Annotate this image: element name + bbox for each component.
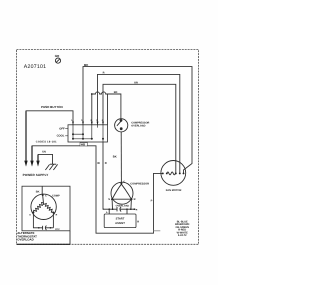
svg-text:COOL: COOL (57, 135, 65, 138)
chassis ground (45, 164, 57, 170)
svg-text:HB: HB (81, 143, 85, 147)
wire bus2 to fan motor (98, 74, 180, 173)
wire overload to compressor C terminal (120, 132, 122, 183)
wire GN ground lead (38, 154, 53, 164)
svg-text:5-24-72: 5-24-72 (178, 234, 187, 237)
svg-text:OVERLOAD: OVERLOAD (131, 125, 145, 128)
wire bus4 switch to compressor overload with crossover hops (92, 92, 121, 125)
alternate detail enclosure box (22, 186, 70, 231)
wire switch to compressor S (103, 142, 104, 209)
label ALTERNATE THERMOSTAT OVERLOAD (17, 231, 37, 242)
svg-text:W: W (97, 162, 100, 165)
start assist box (104, 214, 136, 228)
fan motor M2 (161, 161, 186, 186)
switch internal contacts (73, 125, 103, 142)
switch terminal labels (72, 119, 104, 122)
svg-text:PUSH BUTTON: PUSH BUTTON (41, 105, 63, 109)
svg-text:R: R (103, 71, 105, 74)
svg-text:OR: OR (134, 82, 138, 85)
svg-text:OVERLOAD: OVERLOAD (17, 238, 33, 242)
compressor overload OL1 (115, 119, 128, 132)
switch terminal plug marks (72, 122, 104, 125)
switch box S1 (68, 125, 108, 142)
svg-text:P: P (151, 199, 153, 202)
svg-text:PCC: PCC (55, 228, 60, 231)
terminal C (120, 183, 122, 185)
wire S to capacitor row (111, 199, 113, 209)
svg-text:A: A (106, 211, 108, 214)
alt wire stub BK (41, 186, 43, 194)
svg-text:R: R (137, 221, 139, 224)
pointer wires OFF/COOL (65, 127, 68, 129)
wire bottom stub (154, 230, 161, 232)
svg-text:COMP: COMP (52, 195, 60, 198)
svg-text:START: START (116, 218, 125, 221)
fan terminal dots (162, 172, 185, 174)
run capacitor C1 (103, 207, 136, 212)
svg-text:BK: BK (36, 191, 40, 194)
svg-text:R: R (134, 198, 136, 201)
alt capacitor dots (38, 227, 40, 229)
wire box edge to bottom border (69, 231, 71, 245)
terminal S (111, 198, 113, 200)
alt capacitor wires (32, 213, 34, 228)
compressor winding triangle (112, 184, 131, 199)
border frame (17, 50, 199, 245)
wire bus3 to fan motor (103, 84, 176, 173)
wire power L1 to switch (26, 111, 73, 161)
ground screw GR (55, 58, 60, 63)
svg-text:R: R (56, 214, 58, 217)
svg-text:POWER SUPPLY: POWER SUPPLY (23, 173, 50, 177)
wire R to capacitor row (130, 199, 133, 209)
svg-text:R: R (105, 162, 107, 165)
alternate compressor detail (31, 194, 56, 219)
fan motor winding coil (167, 172, 176, 175)
junction dot bus4 (91, 93, 93, 95)
capacitor junction dots (108, 208, 135, 210)
connector HB at switch bottom (80, 143, 87, 146)
terminal R (130, 198, 132, 200)
alt winding arms (34, 195, 54, 212)
power supply arrows (24, 161, 39, 167)
svg-text:ASSIST: ASSIST (115, 222, 125, 225)
svg-text:GR: GR (55, 54, 60, 58)
bottom border dark segment (17, 243, 71, 245)
svg-text:C: C (45, 194, 47, 197)
svg-text:R: R (136, 209, 138, 212)
svg-text:BK: BK (113, 156, 117, 159)
wire stub to switch box top right corner (107, 94, 109, 125)
svg-text:CODES 18-181: CODES 18-181 (36, 140, 57, 143)
svg-text:A207101: A207101 (24, 64, 47, 70)
compressor M1 (111, 182, 133, 204)
switch contact dots (72, 133, 104, 140)
svg-text:S: S (29, 214, 31, 217)
svg-text:BK: BK (114, 91, 118, 94)
svg-text:C: C (123, 180, 125, 183)
wire color legend (175, 221, 189, 238)
alt terminal top dot (42, 194, 44, 196)
svg-text:OFF: OFF (59, 127, 65, 130)
wire power L2 to switch HB (32, 146, 80, 161)
wire start box taps (108, 209, 110, 214)
alt terminal dots (32, 212, 34, 214)
svg-text:FAN MOTOR: FAN MOTOR (166, 189, 182, 192)
svg-text:S: S (108, 198, 110, 201)
wire bus1 BK: switch to fan-motor common via right side and bottom (83, 67, 192, 174)
svg-text:COMPRESSOR: COMPRESSOR (130, 182, 149, 185)
svg-text:GN: GN (42, 150, 46, 153)
svg-text:OVERLOAD: OVERLOAD (116, 204, 130, 207)
wire HB down to bottom common (87, 146, 162, 233)
